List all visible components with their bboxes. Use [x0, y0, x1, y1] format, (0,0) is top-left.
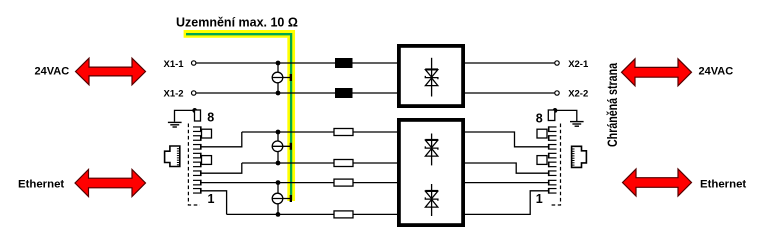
svg-text:Uzemnění max. 10 Ω: Uzemnění max. 10 Ω: [176, 16, 298, 30]
suppressor box U2: [399, 120, 463, 225]
wire X1-2 to box: [196, 92, 397, 94]
eth wire 3 cont: [353, 182, 397, 184]
svg-text:1: 1: [536, 192, 543, 206]
wire box to X2-1: [465, 62, 555, 64]
right eth wire 4: [465, 191, 549, 215]
svg-text:Ethernet: Ethernet: [700, 179, 746, 191]
terminal X2-1: [555, 61, 559, 65]
RJ45 plug icon right: [572, 146, 587, 167]
svg-text:X1-2: X1-2: [164, 89, 184, 100]
ground bus highlight (yellow): [184, 34, 292, 201]
junction dot pin8 left: [192, 108, 197, 113]
suppressor box U1: [399, 46, 463, 106]
TVS diode D3 (bidirectional): [425, 184, 438, 216]
svg-text:X2-2: X2-2: [568, 89, 588, 100]
arrow 24VAC right: [622, 59, 692, 86]
pin 8 box right: [548, 110, 555, 121]
right eth wire 2: [465, 163, 549, 173]
right RJ45 pin contacts: [549, 126, 557, 193]
TVS diode D1 (bidirectional): [425, 58, 438, 97]
svg-text:Chráněná strana: Chráněná strana: [604, 63, 620, 147]
gas discharge tube G1: [272, 61, 292, 96]
gas discharge tube G3: [272, 180, 292, 217]
wire pin6 jog up: [202, 132, 242, 147]
resistor R2: [334, 160, 353, 167]
svg-text:X1-1: X1-1: [164, 59, 185, 70]
svg-text:24VAC: 24VAC: [35, 66, 70, 78]
resistor R1: [334, 129, 353, 136]
left RJ45 pin contacts: [193, 126, 201, 193]
svg-text:8: 8: [207, 111, 214, 125]
wire pin2 straight: [202, 182, 335, 184]
left RJ45 dashed housing: [188, 124, 200, 206]
termination box pins 5-4 right: [537, 156, 547, 165]
svg-text:X2-1: X2-1: [568, 59, 589, 70]
wire X1-1 to box: [196, 62, 397, 64]
termination box pins 8-7 left: [202, 129, 212, 138]
right RJ45 ground: [555, 110, 584, 126]
pin 8 box left: [195, 110, 201, 121]
eth wire 4: [227, 213, 334, 215]
arrow 24VAC left: [76, 58, 146, 85]
resistor R4: [334, 211, 353, 218]
junction dot pin8 right: [553, 108, 558, 113]
eth wire 2: [242, 162, 334, 164]
wire pin1 jog down: [202, 191, 227, 215]
ground bus wire (green): [186, 34, 291, 200]
gas discharge tube G2: [272, 130, 292, 166]
fuse F1 (black): [335, 58, 353, 68]
svg-text:24VAC: 24VAC: [699, 66, 734, 78]
termination box pins 5-4 left: [202, 156, 212, 165]
wire pin3 jog up: [202, 163, 242, 173]
arrow Ethernet left: [75, 170, 146, 197]
right eth wire 1: [465, 132, 549, 147]
fuse F2 (black): [335, 88, 353, 98]
right RJ45 dashed housing: [549, 124, 561, 206]
resistor R3: [334, 179, 353, 186]
terminal X2-2: [555, 91, 559, 95]
left RJ45 ground: [168, 110, 195, 127]
svg-text:8: 8: [536, 112, 543, 126]
svg-text:Ethernet: Ethernet: [18, 179, 64, 191]
wire box to X2-2: [465, 92, 555, 94]
eth wire 1: [242, 131, 334, 133]
termination box pins 8-7 right: [537, 129, 547, 138]
svg-text:1: 1: [208, 192, 215, 206]
TVS diode D2 (bidirectional): [425, 134, 438, 166]
arrow Ethernet right: [623, 169, 692, 196]
right eth wire 3: [465, 182, 549, 184]
RJ45 plug icon left: [165, 146, 180, 167]
